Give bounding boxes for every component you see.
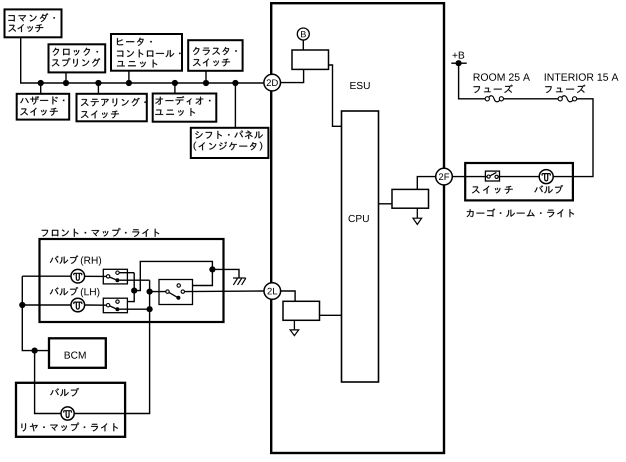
clock spring box	[49, 44, 106, 72]
wire cargo switch to bulb	[498, 176, 539, 178]
ESU unit box	[271, 3, 444, 453]
label rear map light	[22, 423, 118, 432]
ground chassis below 2L rect	[293, 320, 295, 330]
wire 2F to cargo switch	[452, 176, 487, 178]
wire bulb RH to switch RH	[84, 275, 106, 277]
cluster switch box	[188, 40, 242, 71]
CPU box	[342, 111, 379, 382]
node junction LH lower	[147, 306, 153, 312]
ground body (hatched)	[233, 277, 246, 279]
label switch cargo	[472, 186, 513, 194]
audio unit box	[153, 94, 217, 122]
+B terminal bar	[451, 62, 466, 64]
node bus-clockspring junction	[63, 80, 69, 86]
BCM box	[49, 338, 106, 368]
label fuse INTERIOR	[545, 85, 585, 93]
heater control unit box	[111, 34, 182, 71]
label fuse ROOM	[474, 85, 513, 93]
label bulb rear	[50, 388, 79, 396]
label ESU	[350, 82, 369, 89]
node junction common	[147, 289, 153, 295]
wire switch RH lower contact	[119, 279, 149, 281]
node bus-audio junction	[172, 80, 178, 86]
wire steering switch branch	[97, 83, 99, 94]
fuse INTERIOR 15 A	[558, 97, 562, 101]
node junction B top rail	[209, 266, 215, 272]
wire switch LH lower contact	[119, 308, 149, 310]
wire 2D to power rect	[280, 69, 303, 82]
wire B to power rect	[302, 40, 304, 50]
wire +B to fuses	[459, 63, 486, 99]
wire BCM branch to rear bulb	[35, 351, 62, 414]
wire left to bulb RH	[22, 275, 71, 277]
wire 3pos right contact to 2L	[185, 290, 265, 293]
wire power rect to CPU	[329, 65, 342, 126]
shift panel (indicator) box	[191, 128, 269, 158]
wire bulbs to BCM	[22, 276, 49, 350]
label BCM	[65, 351, 86, 358]
connector 2F circle	[436, 168, 453, 185]
wire bus to connector 2D	[21, 37, 264, 83]
input rect from 2L	[283, 301, 320, 320]
label +B	[453, 52, 465, 59]
label front map light	[42, 228, 160, 237]
wire clock spring branch	[65, 72, 67, 83]
wire to body ground	[212, 269, 239, 277]
power supply rect U1	[292, 50, 329, 69]
node bus-steering junction	[95, 80, 101, 86]
bulb cargo room light	[539, 170, 553, 184]
switch map 3-position	[159, 280, 193, 305]
node junction A	[131, 288, 137, 294]
switch cargo room light	[485, 171, 499, 181]
wire audio unit branch	[174, 83, 176, 94]
connector 2D circle	[264, 74, 281, 91]
wire cluster switch branch	[205, 71, 207, 83]
label ROOM 25 A	[474, 73, 530, 80]
ground chassis below 2F rect	[416, 208, 418, 218]
node +B terminal	[456, 60, 462, 66]
wire shift panel branch	[234, 83, 236, 128]
bulb front map LH	[71, 298, 85, 312]
node bus-cluster junction	[203, 80, 209, 86]
label cargo room light	[467, 209, 574, 218]
label CPU	[349, 215, 369, 222]
wire 2F to output rect	[417, 177, 435, 190]
wire input rect to CPU	[320, 314, 342, 316]
bulb rear map light	[61, 407, 74, 420]
hazard switch box	[17, 94, 69, 120]
wire vertical RH-LH contacts	[119, 273, 134, 302]
label bulb cargo	[534, 185, 563, 193]
steering switch box	[77, 94, 147, 122]
wire junction A to top rail	[134, 261, 212, 290]
wire common vertical to rear bulb	[74, 280, 150, 413]
wire 2L to input rect	[281, 291, 296, 301]
wire common to 3pos pivot	[150, 291, 166, 293]
node bus-shiftpanel junction	[232, 80, 238, 86]
wire between fuses	[504, 98, 559, 100]
node bus-hazard junction	[38, 80, 44, 86]
fuse ROOM 25 A	[485, 97, 489, 101]
node junction bulbs LH	[19, 302, 25, 308]
label INTERIOR 15 A	[545, 73, 619, 80]
wire bulb LH to switch LH	[84, 304, 106, 306]
wire CPU to output rect 2F	[379, 203, 393, 205]
front map light box	[40, 239, 224, 322]
bulb front map RH	[71, 269, 85, 283]
connector 2L circle	[264, 283, 281, 300]
switch front map RH	[103, 269, 127, 284]
wire fuse to cargo bulb	[553, 99, 593, 177]
wire hazard switch branch	[40, 83, 42, 94]
output rect to 2F	[392, 189, 429, 208]
commander switch box	[5, 9, 62, 37]
wire switch RH top contact	[119, 272, 134, 274]
wire left to bulb LH	[22, 304, 71, 306]
cargo room light box	[465, 163, 573, 200]
connector B circle	[297, 28, 309, 40]
rear map light box	[16, 383, 125, 437]
label bulb RH	[50, 255, 78, 263]
label bulb LH	[50, 287, 78, 295]
node junction BCM branch	[31, 348, 37, 354]
node bus-heater junction	[126, 80, 132, 86]
wire heater control branch	[128, 71, 130, 83]
switch front map LH	[103, 298, 127, 313]
